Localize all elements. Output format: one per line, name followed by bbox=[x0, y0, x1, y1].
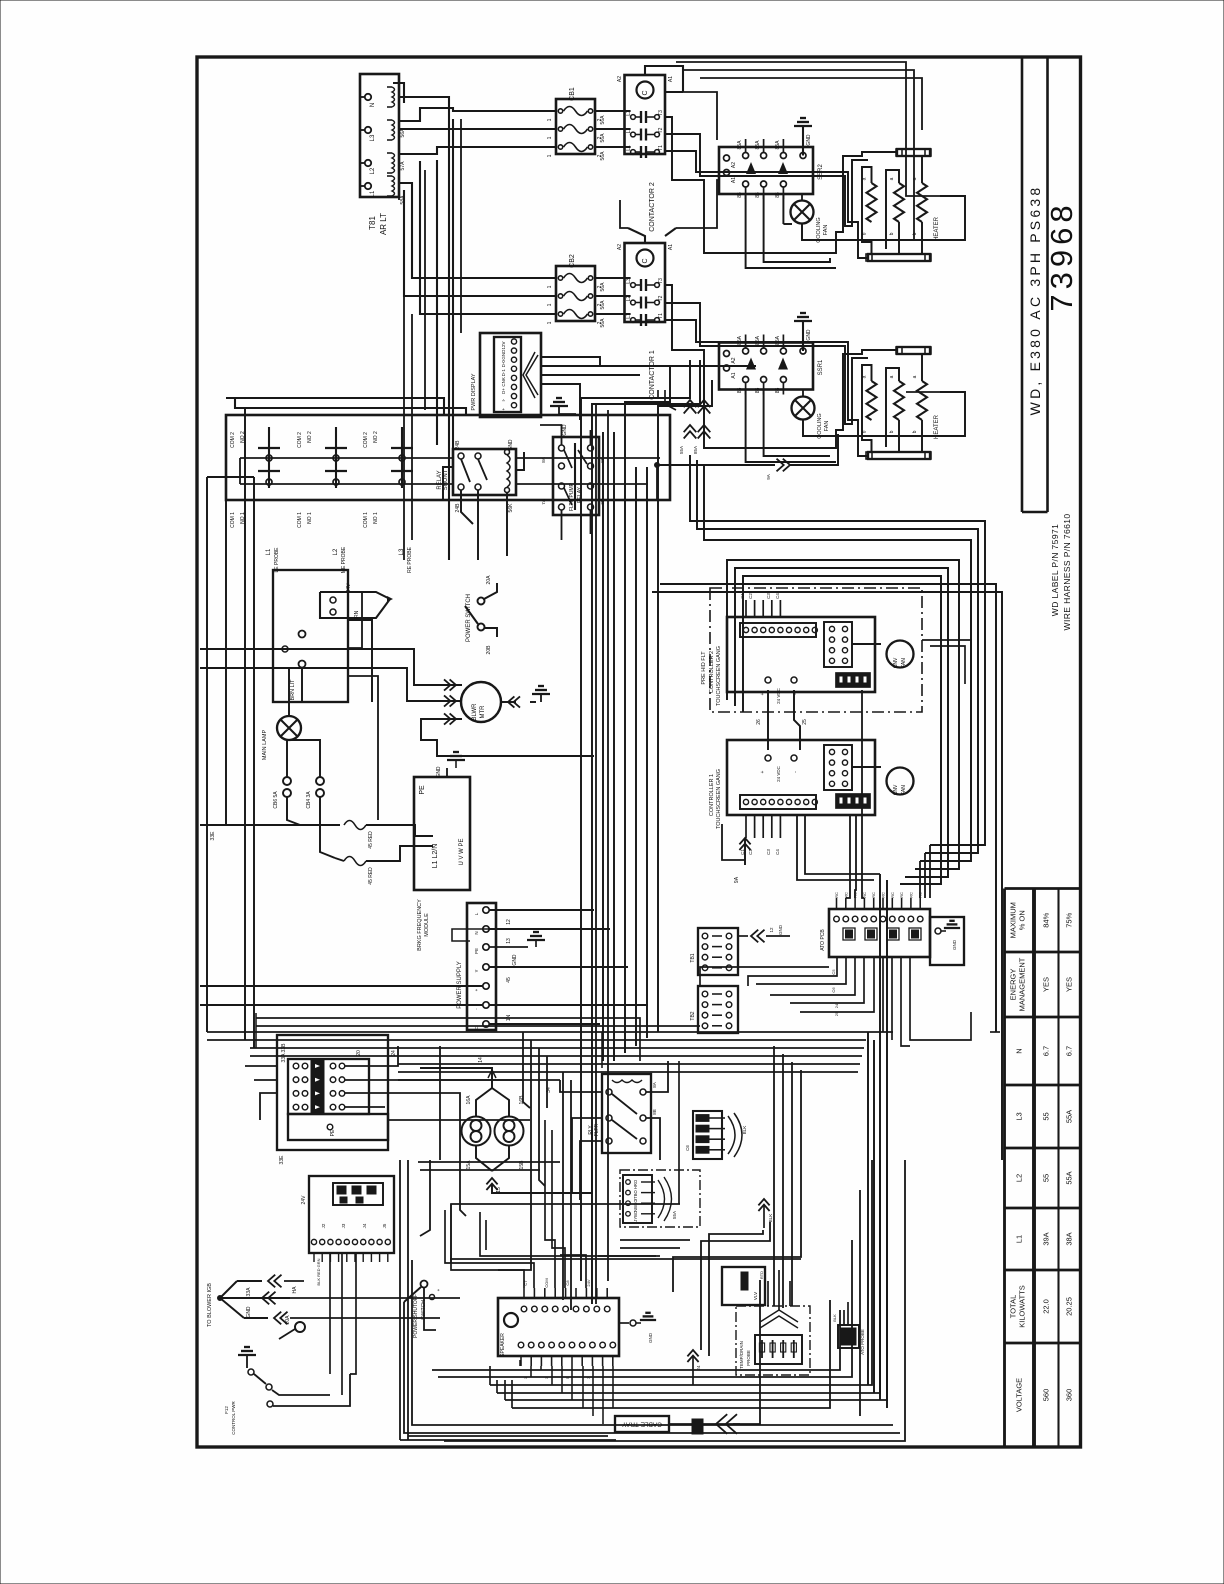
svg-text:56K: 56K bbox=[508, 503, 514, 513]
heater resistor bbox=[867, 183, 877, 222]
svg-text:CNK: CNK bbox=[501, 377, 506, 387]
svg-text:MTR: MTR bbox=[480, 705, 486, 719]
svg-text:9A: 9A bbox=[734, 876, 740, 883]
svg-text:6.7: 6.7 bbox=[1041, 1046, 1050, 1056]
fuse symbols to module bbox=[344, 821, 366, 830]
svg-text:D-1: D-1 bbox=[501, 369, 506, 377]
svg-text:HEATER: HEATER bbox=[934, 216, 940, 241]
svg-text:BLK: BLK bbox=[832, 1314, 837, 1322]
svg-text:C4: C4 bbox=[775, 849, 780, 855]
svg-text:COM 1: COM 1 bbox=[363, 512, 369, 528]
svg-text:NO 2: NO 2 bbox=[307, 431, 313, 443]
svg-text:WD LABEL P/N 75971: WD LABEL P/N 75971 bbox=[1050, 524, 1060, 616]
DIP block bbox=[836, 673, 870, 687]
svg-text:COM 2: COM 2 bbox=[363, 432, 369, 448]
ground left bbox=[238, 1354, 256, 1356]
svg-text:CNV: CNV bbox=[893, 657, 899, 668]
ground right of module bbox=[447, 759, 465, 761]
svg-text:+: + bbox=[501, 408, 506, 411]
svg-text:+: + bbox=[760, 770, 766, 773]
power supply terminal strip bbox=[467, 903, 496, 1030]
F12 control fuse bbox=[295, 1322, 305, 1332]
svg-text:85: 85 bbox=[755, 388, 761, 394]
svg-text:75%: 75% bbox=[1065, 912, 1074, 927]
svg-text:8B: 8B bbox=[652, 1109, 657, 1115]
svg-text:16A: 16A bbox=[466, 1095, 472, 1105]
up chevrons on SSR feed wires bbox=[684, 400, 697, 407]
svg-text:85: 85 bbox=[737, 192, 743, 198]
enclosure dash-dot boundary bbox=[710, 588, 922, 712]
long right verticals to bottom bbox=[990, 1031, 1000, 1033]
svg-text:56A: 56A bbox=[600, 133, 606, 143]
svg-text:NO 1: NO 1 bbox=[307, 512, 313, 524]
filter relay bbox=[602, 1074, 651, 1153]
svg-text:45 RED: 45 RED bbox=[368, 831, 374, 849]
svg-text:GND: GND bbox=[501, 349, 506, 360]
svg-text:TO BLOWER IGB: TO BLOWER IGB bbox=[207, 1283, 213, 1327]
svg-text:85A: 85A bbox=[737, 335, 743, 345]
svg-text:CB2: CB2 bbox=[569, 254, 576, 268]
svg-text:RC: RC bbox=[871, 892, 876, 898]
wires to heater bank1 bbox=[665, 285, 897, 448]
svg-text:COOLING: COOLING bbox=[817, 413, 823, 438]
svg-text:GND: GND bbox=[806, 134, 812, 146]
svg-text:45 RED: 45 RED bbox=[368, 867, 374, 885]
svg-text:6.7: 6.7 bbox=[1065, 1046, 1074, 1056]
svg-text:33E: 33E bbox=[210, 831, 216, 841]
spec table bbox=[1003, 889, 1006, 1448]
svg-text:+: + bbox=[474, 988, 479, 991]
svg-text:VLV: VLV bbox=[753, 1292, 758, 1300]
svg-text:L1 L2/N: L1 L2/N bbox=[432, 844, 439, 869]
svg-text:A1: A1 bbox=[668, 76, 674, 82]
svg-text:33E: 33E bbox=[279, 1155, 285, 1165]
wires contactor2 T-side to heater bank 2 bbox=[665, 117, 897, 253]
svg-text:+: + bbox=[436, 1288, 441, 1291]
bottom long buses bbox=[432, 1310, 840, 1370]
svg-text:COM 2: COM 2 bbox=[230, 432, 236, 448]
svg-text:+: + bbox=[760, 692, 766, 695]
svg-text:CB1: CB1 bbox=[569, 87, 576, 101]
svg-text:NO 1: NO 1 bbox=[373, 512, 379, 524]
svg-text:GND: GND bbox=[246, 1306, 252, 1318]
power switch bbox=[478, 598, 485, 605]
terminal block TB2 bbox=[698, 986, 738, 1033]
connector C6 4-wire bbox=[693, 1111, 722, 1159]
svg-text:J4: J4 bbox=[362, 1223, 367, 1228]
svg-text:HA: HA bbox=[292, 1286, 298, 1294]
svg-text:RLY: RLY bbox=[588, 1125, 594, 1135]
svg-text:YES: YES bbox=[1065, 977, 1074, 992]
svg-text:CB4 3A: CB4 3A bbox=[306, 791, 312, 809]
SSR triangles bbox=[746, 162, 756, 174]
wires CB to contactor 1 bbox=[595, 277, 631, 279]
svg-text:L1: L1 bbox=[370, 190, 376, 197]
contactor 1 coil wires bbox=[628, 228, 645, 243]
svg-text:POWER SUPPLY: POWER SUPPLY bbox=[457, 961, 463, 1009]
power supply wires bbox=[489, 909, 594, 911]
svg-text:20.25: 20.25 bbox=[1065, 1297, 1074, 1316]
conv fan bbox=[887, 768, 914, 795]
bottom horizontal buses bbox=[490, 1160, 872, 1385]
svg-text:T2: T2 bbox=[658, 127, 664, 133]
svg-text:24V: 24V bbox=[346, 583, 352, 593]
svg-text:26: 26 bbox=[756, 719, 762, 725]
svg-text:24: 24 bbox=[834, 1003, 839, 1008]
ground above SSR1 bbox=[794, 320, 812, 322]
connector pentagon bbox=[320, 592, 390, 618]
svg-text:SWITCH: SWITCH bbox=[421, 1300, 427, 1320]
svg-text:U V W PE: U V W PE bbox=[459, 838, 465, 865]
svg-text:56A: 56A bbox=[600, 300, 606, 310]
svg-text:a: a bbox=[889, 375, 895, 378]
svg-text:ATO PCB: ATO PCB bbox=[820, 929, 826, 951]
svg-text:a: a bbox=[912, 375, 918, 378]
svg-text:BLK: BLK bbox=[768, 1214, 773, 1223]
svg-text:MAIN LAMP: MAIN LAMP bbox=[262, 730, 268, 761]
svg-text:8A: 8A bbox=[541, 457, 546, 463]
svg-text:20B: 20B bbox=[486, 645, 492, 655]
wires top right to controllers bbox=[676, 62, 940, 196]
shunt relay K1 bbox=[453, 449, 516, 495]
svg-text:1: 1 bbox=[547, 118, 553, 121]
svg-text:N: N bbox=[370, 103, 376, 107]
pin header bbox=[740, 623, 816, 637]
svg-text:L3: L3 bbox=[370, 134, 376, 141]
DIP block bbox=[836, 794, 870, 808]
power shutoff wires bbox=[404, 1302, 900, 1433]
CONTACTOR 1 bbox=[625, 243, 666, 322]
svg-text:85A: 85A bbox=[755, 335, 761, 345]
svg-text:45: 45 bbox=[506, 977, 512, 983]
wires around shunt relay bbox=[226, 398, 444, 415]
wires display to right bbox=[541, 357, 600, 367]
ATO PCB relay module bbox=[829, 909, 930, 957]
T81 terminal bbox=[365, 127, 371, 133]
svg-text:12V: 12V bbox=[501, 341, 506, 349]
heater bus top bbox=[897, 347, 930, 354]
svg-text:MAXIMUM: MAXIMUM bbox=[1008, 902, 1017, 938]
SSR triangles bbox=[746, 358, 756, 370]
svg-text:7A: 7A bbox=[541, 499, 546, 505]
svg-text:WIRE HARNESS P/N 76610: WIRE HARNESS P/N 76610 bbox=[1062, 514, 1072, 631]
svg-text:BLK RED GRN: BLK RED GRN bbox=[316, 1258, 321, 1285]
svg-text:POWER SHUTOFF: POWER SHUTOFF bbox=[413, 1294, 419, 1338]
temp drain probe module bbox=[736, 1306, 810, 1375]
svg-text:1: 1 bbox=[547, 321, 553, 324]
svg-text:73968: 73968 bbox=[1044, 200, 1079, 311]
svg-text:J5: J5 bbox=[382, 1223, 387, 1228]
svg-text:L1: L1 bbox=[266, 548, 272, 555]
svg-text:NBGO: NBGO bbox=[633, 1199, 638, 1212]
nested loop wires wrapping controller area bbox=[690, 455, 985, 845]
controller pin stubs bbox=[745, 600, 747, 617]
svg-text:GND: GND bbox=[806, 329, 812, 341]
svg-text:NO 2: NO 2 bbox=[373, 431, 379, 443]
heater resistor bbox=[917, 381, 927, 420]
wires from breaker area down-left bbox=[329, 1253, 331, 1374]
svg-text:TB2: TB2 bbox=[690, 1011, 696, 1020]
blower motor bbox=[461, 682, 501, 722]
breaker lower tab bbox=[288, 1114, 388, 1140]
svg-text:COM: COM bbox=[544, 1278, 549, 1287]
chevrons near TB1 bbox=[751, 930, 758, 943]
svg-text:55A: 55A bbox=[679, 446, 684, 454]
svg-text:GND: GND bbox=[778, 924, 783, 935]
cable loop bbox=[290, 1270, 306, 1330]
svg-text:AR LT: AR LT bbox=[379, 213, 388, 235]
coil bbox=[637, 250, 654, 267]
wire with right chevrons y465 bbox=[655, 463, 660, 468]
svg-text:55A: 55A bbox=[672, 1211, 677, 1219]
svg-text:GND: GND bbox=[508, 439, 514, 451]
svg-text:FAN: FAN bbox=[901, 785, 907, 795]
svg-text:25: 25 bbox=[802, 719, 808, 725]
svg-text:C3: C3 bbox=[766, 849, 771, 855]
8pin connector grid bbox=[824, 745, 852, 790]
svg-text:CNV: CNV bbox=[893, 784, 899, 795]
controller 1 touchscreen bbox=[727, 740, 875, 815]
ATO probe connector bbox=[838, 1325, 859, 1348]
svg-text:85: 85 bbox=[737, 388, 743, 394]
svg-text:1: 1 bbox=[547, 285, 553, 288]
svg-text:PWR DISPLAY: PWR DISPLAY bbox=[471, 373, 477, 411]
contact pole bbox=[631, 300, 636, 305]
svg-text:55: 55 bbox=[1041, 1174, 1050, 1182]
pin header bbox=[740, 795, 816, 809]
HRO connector block dash-dot bbox=[620, 1170, 700, 1227]
svg-text:57A: 57A bbox=[400, 161, 406, 171]
contact group bbox=[335, 427, 337, 488]
svg-text:1: 1 bbox=[547, 136, 553, 139]
heater resistor bbox=[867, 381, 877, 420]
svg-text:COOLING: COOLING bbox=[816, 217, 822, 242]
svg-text:C4: C4 bbox=[775, 593, 780, 599]
contact pole bbox=[631, 115, 636, 120]
svg-text:CONTACTOR 1: CONTACTOR 1 bbox=[649, 350, 656, 400]
contact pole bbox=[631, 150, 636, 155]
svg-text:COM 1: COM 1 bbox=[297, 512, 303, 528]
SIB right pin + ground bbox=[619, 1322, 629, 1324]
svg-text:C: C bbox=[642, 258, 649, 263]
svg-text:J2: J2 bbox=[321, 1223, 326, 1228]
lamp diamond bottom arrow bbox=[486, 1178, 497, 1184]
fuse CB6 bbox=[283, 777, 291, 785]
svg-text:YES: YES bbox=[1041, 977, 1050, 992]
svg-text:TEMP/DRAIN: TEMP/DRAIN bbox=[739, 1341, 744, 1369]
contact group bbox=[401, 427, 403, 488]
svg-text:9A: 9A bbox=[766, 474, 771, 480]
chevron feeds into motor bbox=[430, 684, 462, 686]
svg-text:GND: GND bbox=[512, 954, 518, 966]
extra mid bus lines bbox=[256, 1025, 700, 1027]
svg-text:TOUCHSCREEN GANG: TOUCHSCREEN GANG bbox=[716, 769, 722, 829]
svg-text:85A: 85A bbox=[737, 140, 743, 150]
svg-text:b: b bbox=[862, 430, 868, 433]
ATO aux box with gnd bbox=[930, 917, 964, 965]
svg-text:33A 33B: 33A 33B bbox=[281, 1043, 287, 1063]
indicator lamp diamond bbox=[462, 1117, 491, 1146]
svg-text:L2: L2 bbox=[370, 167, 376, 174]
svg-text:85A: 85A bbox=[693, 446, 698, 454]
svg-text:39A: 39A bbox=[1041, 1232, 1050, 1245]
heater resistor bbox=[894, 381, 904, 420]
svg-text:12: 12 bbox=[769, 927, 774, 933]
sonalert interface board bbox=[309, 1176, 394, 1253]
svg-text:RC: RC bbox=[881, 892, 886, 898]
svg-text:24: 24 bbox=[391, 1050, 397, 1056]
svg-text:T3: T3 bbox=[658, 278, 664, 284]
heater bus bottom bbox=[868, 254, 930, 261]
svg-text:WD, E380 AC 3PH PS638: WD, E380 AC 3PH PS638 bbox=[1027, 185, 1043, 416]
main breaker block bbox=[277, 1035, 388, 1150]
solid state relay SSR bbox=[719, 147, 813, 194]
ground above SSR2 bbox=[794, 125, 812, 127]
probe chevrons bbox=[760, 1316, 798, 1328]
svg-text:360: 360 bbox=[1065, 1389, 1074, 1402]
svg-text:% ON: % ON bbox=[1017, 910, 1026, 930]
controller 2 touchscreen bbox=[727, 617, 875, 692]
svg-text:38A: 38A bbox=[1065, 1232, 1074, 1245]
svg-text:C6: C6 bbox=[831, 987, 836, 993]
chevrons up near probes bbox=[687, 1350, 698, 1356]
svg-text:PE: PE bbox=[474, 948, 479, 954]
svg-text:L2: L2 bbox=[333, 548, 339, 555]
svg-text:85: 85 bbox=[775, 192, 781, 198]
circuit breaker CB2 bbox=[556, 266, 595, 321]
outer loop verticals bbox=[660, 584, 996, 1032]
probe wires up bbox=[767, 1281, 769, 1306]
svg-text:GND: GND bbox=[952, 939, 957, 950]
svg-text:8A: 8A bbox=[652, 1082, 657, 1088]
svg-text:POWER SWITCH: POWER SWITCH bbox=[466, 594, 472, 642]
power shutoff switch bbox=[421, 1281, 428, 1288]
svg-text:RC: RC bbox=[843, 892, 848, 898]
svg-text:PE: PE bbox=[330, 1129, 336, 1136]
svg-text:13: 13 bbox=[506, 938, 512, 944]
svg-text:b: b bbox=[889, 232, 895, 235]
svg-text:A2: A2 bbox=[617, 244, 623, 250]
svg-text:22.0: 22.0 bbox=[1041, 1299, 1050, 1314]
feed wires SSR to cooling fans/heaters bbox=[746, 194, 836, 268]
svg-text:25: 25 bbox=[834, 1011, 839, 1016]
svg-text:33A: 33A bbox=[246, 1287, 252, 1297]
relay wires top bbox=[540, 425, 562, 445]
svg-text:PE: PE bbox=[419, 785, 426, 795]
cable tray box bbox=[615, 1416, 669, 1432]
chevron up near HRO bbox=[758, 1199, 769, 1205]
long verticals from T81 area down bbox=[448, 108, 450, 560]
svg-text:L2: L2 bbox=[1014, 1174, 1023, 1182]
breaker feed wires bbox=[245, 1065, 277, 1067]
svg-text:RE PROBE: RE PROBE bbox=[407, 546, 413, 573]
svg-text:FAN: FAN bbox=[824, 421, 830, 432]
svg-text:56A: 56A bbox=[600, 115, 606, 125]
connector chevrons bbox=[526, 355, 538, 395]
left stubs bbox=[225, 477, 227, 500]
middle vertical wire trunk bbox=[580, 410, 582, 1281]
svg-text:20A: 20A bbox=[285, 1315, 291, 1325]
svg-text:C: C bbox=[642, 90, 649, 95]
wires CB to contactor 2 bbox=[595, 110, 631, 112]
svg-text:RC: RC bbox=[908, 892, 913, 898]
extra verticals top bbox=[403, 200, 405, 560]
8pin connector grid bbox=[824, 622, 852, 667]
svg-text:CONTACTOR 2: CONTACTOR 2 bbox=[649, 182, 656, 232]
svg-text:C3: C3 bbox=[766, 593, 771, 599]
contact group bbox=[268, 427, 270, 488]
contactor 2 coil wires bbox=[645, 66, 683, 92]
svg-text:CONTROL PWR: CONTROL PWR bbox=[231, 1400, 236, 1434]
cooling fan 2 bbox=[791, 201, 814, 224]
relay wires bbox=[560, 1080, 602, 1092]
svg-text:SPEAKER: SPEAKER bbox=[500, 1333, 506, 1357]
heater resistor bbox=[894, 183, 904, 222]
svg-text:N: N bbox=[1014, 1048, 1023, 1053]
svg-text:RC: RC bbox=[834, 892, 839, 898]
svg-text:56A: 56A bbox=[600, 318, 606, 328]
wires from controllers down to ATO/TB bbox=[846, 815, 850, 898]
T81 terminal bbox=[365, 160, 371, 166]
relay contacts box COM/NO bbox=[226, 415, 670, 500]
ground by display bbox=[550, 405, 568, 407]
breaker frequency module bbox=[414, 777, 470, 890]
svg-text:MANAGEMENT: MANAGEMENT bbox=[1017, 957, 1026, 1011]
coil bbox=[637, 82, 654, 99]
junction box outline bbox=[273, 570, 348, 702]
cooling fan 1 bbox=[792, 397, 815, 420]
SIB board bbox=[498, 1298, 619, 1356]
svg-text:b: b bbox=[889, 430, 895, 433]
transformer T81 AR LT bbox=[360, 74, 399, 197]
svg-text:560: 560 bbox=[1041, 1389, 1050, 1402]
svg-text:55A: 55A bbox=[1065, 1110, 1074, 1123]
svg-text:85: 85 bbox=[775, 388, 781, 394]
wires: nested rect loops bottom center bbox=[450, 1204, 452, 1263]
svg-text:a: a bbox=[862, 375, 868, 378]
svg-text:1: 1 bbox=[547, 303, 553, 306]
inter-board wires bbox=[767, 690, 769, 750]
horizontal bus mid (y~1032-1078) bbox=[207, 1031, 893, 1033]
svg-text:A1: A1 bbox=[731, 372, 737, 378]
svg-text:24 VDC: 24 VDC bbox=[776, 765, 781, 782]
svg-text:C6: C6 bbox=[685, 1145, 690, 1151]
conv fan bbox=[887, 641, 914, 668]
ground at power supply bbox=[489, 946, 528, 948]
long feed wire from left bbox=[200, 824, 340, 826]
solid state relay SSR bbox=[719, 343, 813, 390]
svg-text:85A: 85A bbox=[775, 140, 781, 150]
svg-text:24V: 24V bbox=[301, 1195, 307, 1205]
svg-text:55A: 55A bbox=[1065, 1171, 1074, 1184]
svg-text:ITBO: ITBO bbox=[633, 1189, 638, 1200]
heater bus top bbox=[897, 149, 930, 156]
svg-text:24 VDC: 24 VDC bbox=[776, 687, 781, 704]
svg-text:A1: A1 bbox=[668, 244, 674, 250]
svg-text:b: b bbox=[912, 430, 918, 433]
svg-text:CB6 5A: CB6 5A bbox=[273, 791, 279, 809]
wires into SIB top bbox=[451, 1204, 680, 1288]
svg-text:J3: J3 bbox=[341, 1223, 346, 1228]
svg-text:ENERGY: ENERGY bbox=[1008, 969, 1017, 1001]
svg-text:L3: L3 bbox=[1014, 1112, 1023, 1120]
contact pole bbox=[631, 132, 636, 137]
svg-text:T81: T81 bbox=[368, 216, 377, 230]
wires from T81 to breakers/contactors bbox=[393, 83, 404, 103]
svg-text:Y: Y bbox=[474, 969, 479, 972]
svg-text:20: 20 bbox=[356, 1050, 362, 1056]
24VDC pins bbox=[765, 677, 771, 683]
